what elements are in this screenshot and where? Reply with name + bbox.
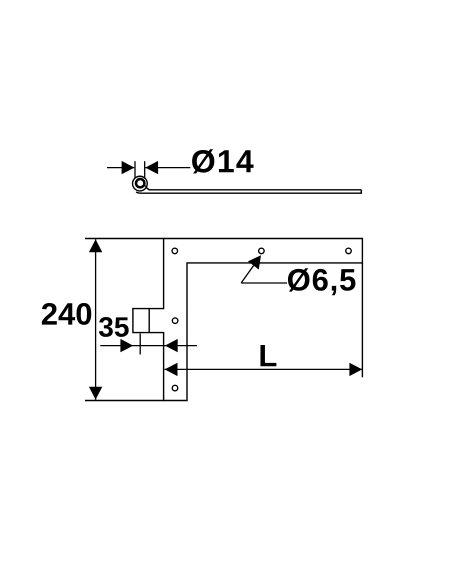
leader Ø6,5 slant line: [241, 258, 259, 283]
label Ø14: [192, 149, 253, 173]
label Ø6,5: [288, 268, 355, 295]
dimension Ø14 arrow right: [145, 161, 158, 174]
dimension L extension line right: [361, 263, 363, 377]
dimension 240 arrow top: [89, 239, 102, 252]
dimension L arrow right: [349, 363, 362, 376]
dimension 240 line: [95, 239, 97, 400]
dimension L line: [165, 368, 363, 370]
plate outline: [133, 239, 363, 401]
strap eye to bar connector: [145, 186, 150, 190]
label 35: [99, 317, 129, 337]
dimension Ø14 extension line left: [134, 161, 136, 178]
strap eye outer curl: [133, 176, 148, 191]
dimension 240 extension line bottom: [85, 400, 164, 402]
dimension 35 arrow left: [120, 339, 133, 352]
knuckle fold line: [148, 309, 150, 333]
dimension L arrow left: [165, 363, 178, 376]
hole H1: [172, 248, 178, 254]
label 240: [42, 303, 91, 325]
hole H4: [172, 318, 178, 324]
dimension 35 extension line (pin axis): [139, 334, 141, 355]
dimension 35 line: [100, 345, 197, 347]
dimension Ø14 arrow left: [122, 161, 135, 174]
leader Ø6,5 arrow: [248, 255, 261, 269]
dimension Ø14 extension line right: [144, 161, 146, 178]
hole H2: [259, 248, 265, 254]
leader Ø6,5 shoulder line: [241, 282, 287, 284]
dimension Ø14 line left segment: [107, 167, 134, 169]
strap eye pin hole: [136, 179, 144, 187]
dimension 35 arrow right: [165, 339, 178, 352]
hole H5: [172, 385, 178, 391]
dimension 240 extension line top: [85, 238, 164, 240]
strap bar bottom edge and end cap: [136, 190, 361, 193]
label L: [260, 345, 276, 366]
strap bar top edge: [149, 189, 362, 191]
dimension 240 arrow bottom: [89, 387, 102, 400]
hole H3: [346, 248, 352, 254]
dimension Ø14 line right segment: [145, 167, 190, 169]
